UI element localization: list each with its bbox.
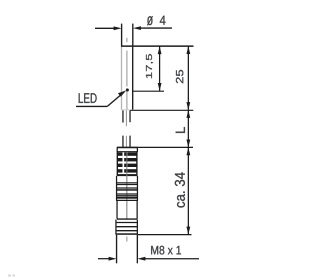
label 25	[176, 70, 183, 83]
dimension M8 left arrow	[98, 257, 117, 261]
label L	[176, 127, 185, 133]
housing left edge (gray)	[121, 47, 123, 110]
cable lower right edge	[129, 136, 131, 148]
knurl bottom band	[117, 174, 137, 176]
label ca. 34	[175, 172, 185, 207]
knurl row 3	[117, 164, 122, 167]
LED leader underline	[76, 105, 107, 107]
housing top right edge	[132, 24, 134, 47]
label ø	[147, 16, 153, 25]
cable center dash	[125, 110, 127, 126]
cable lower center	[125, 136, 127, 148]
center line connector	[126, 152, 128, 219]
ribbed section	[117, 176, 138, 201]
shoulder line	[117, 218, 137, 220]
housing bottom line	[122, 109, 131, 111]
label M8 x 1	[151, 246, 181, 255]
extension line at L bottom	[138, 146, 193, 148]
arrow pair at L/ca.34 boundary	[186, 140, 190, 148]
LED extension line	[133, 90, 164, 92]
cable upper right edge	[129, 110, 131, 122]
label LED	[79, 93, 97, 103]
arrow down at ca.34 bottom	[186, 227, 190, 235]
housing top left edge	[121, 24, 123, 47]
barrel center dash	[126, 237, 128, 242]
knurl row 4	[117, 169, 122, 172]
thread collar	[116, 220, 137, 235]
knurl row 1	[117, 152, 122, 155]
extension line at ca.34 bottom	[138, 234, 192, 236]
LED leader arrowhead	[118, 90, 126, 96]
cable upper left edge	[122, 110, 124, 122]
thread barrel right edge	[136, 235, 138, 263]
dimension ø4 right arrow	[133, 26, 172, 30]
dimension M8 right arrow	[138, 257, 200, 261]
label 4	[160, 16, 166, 25]
housing right edge	[132, 47, 134, 110]
thread barrel left edge	[116, 235, 118, 263]
extension line at 25	[130, 109, 193, 111]
label 17,5	[146, 54, 153, 78]
knurl row 2	[117, 158, 122, 161]
dimension ø4 left arrow	[95, 26, 122, 30]
connector cap	[117, 147, 138, 152]
smooth body	[117, 201, 137, 219]
arrow up at top reference	[186, 46, 190, 54]
dimension line 17,5	[158, 46, 162, 91]
center line housing	[126, 38, 128, 110]
arrow pair at 25/L boundary	[186, 102, 190, 110]
LED dot	[126, 89, 129, 92]
cable lower left edge	[122, 136, 124, 148]
knurl section	[117, 152, 137, 176]
LED leader line	[107, 94, 122, 107]
top reference extension line	[122, 45, 194, 47]
faint bottom-left marks	[8, 275, 15, 277]
main vertical dimension line	[187, 46, 189, 234]
